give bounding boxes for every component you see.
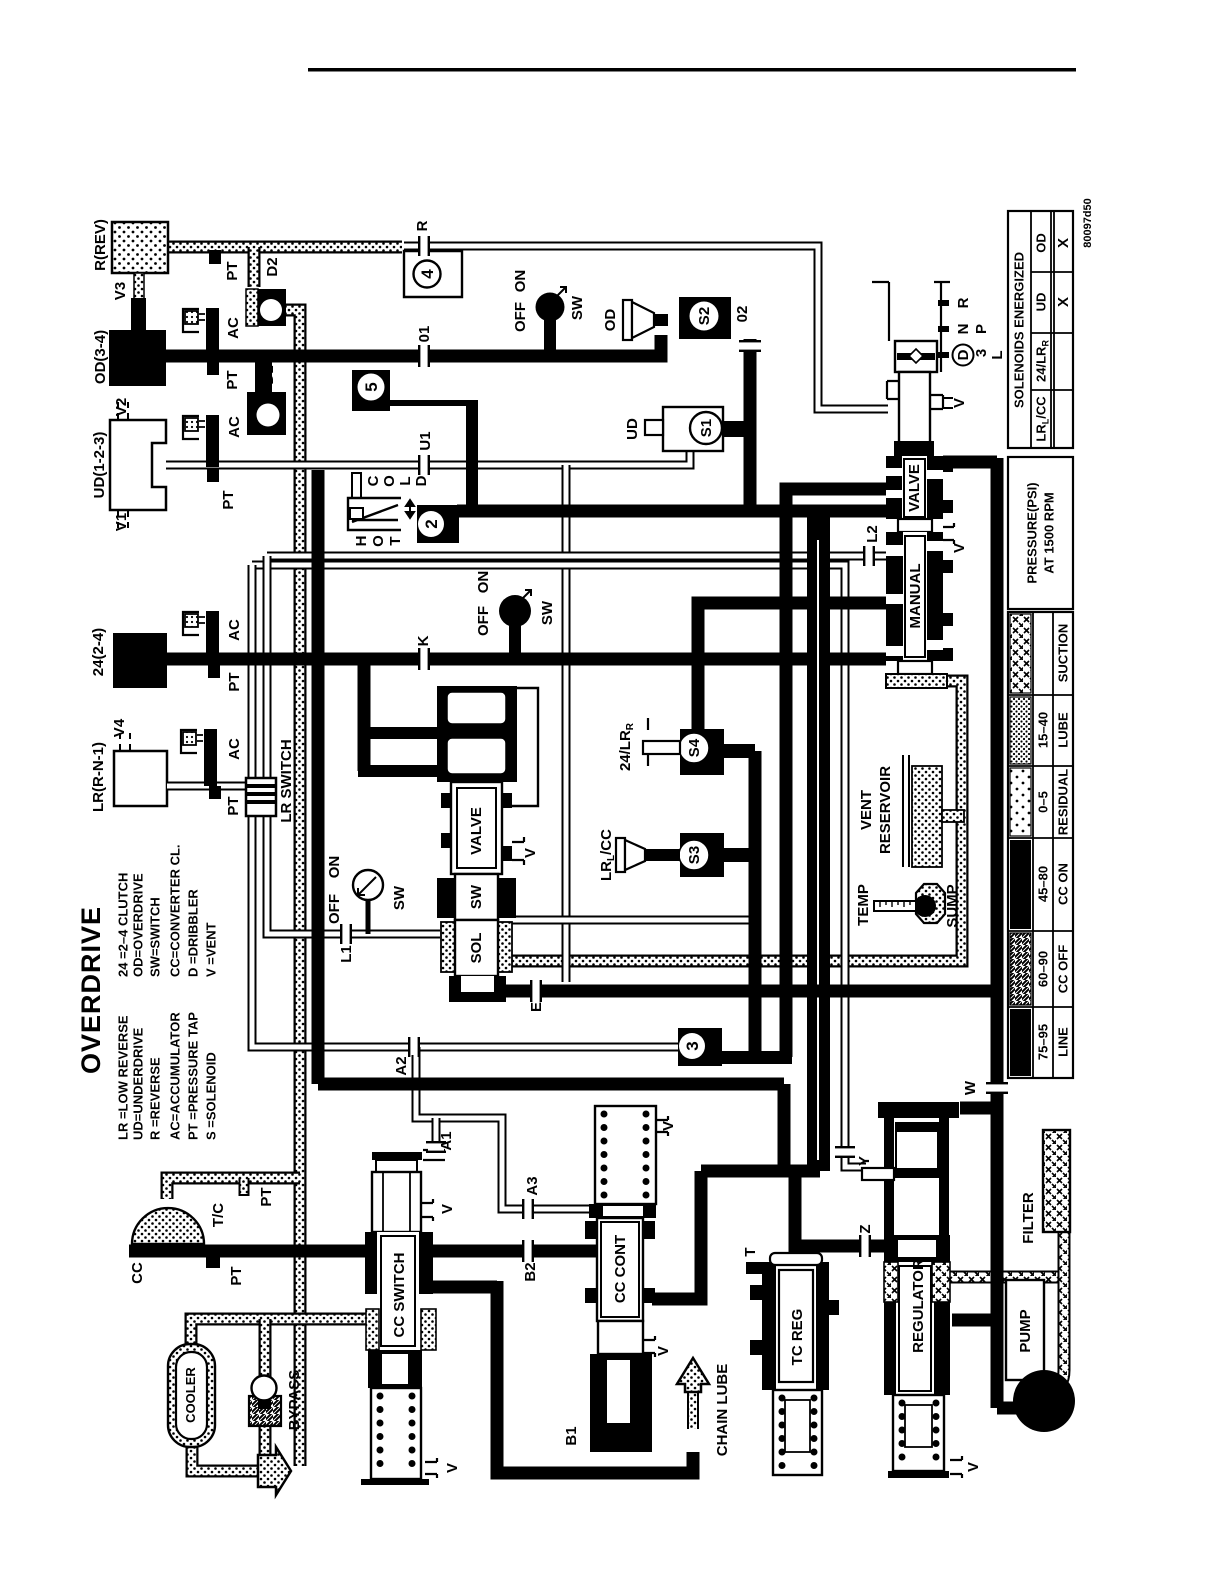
solenoid S3 bbox=[616, 833, 724, 877]
svg-text:D: D bbox=[413, 475, 430, 486]
wire cooler loop stipple bbox=[191, 1319, 372, 1471]
junction circle 3 bbox=[678, 1028, 722, 1066]
svg-text:V: V bbox=[444, 1463, 461, 1473]
wire pump link bbox=[952, 1320, 1017, 1408]
svg-text:VALVE: VALVE bbox=[906, 464, 923, 512]
svg-text:REGULATOR: REGULATOR bbox=[910, 1259, 927, 1353]
wire S3 stub bbox=[722, 848, 755, 862]
wire L2 net bbox=[267, 552, 886, 561]
svg-text:SW: SW bbox=[391, 885, 408, 910]
lube arrow bbox=[258, 1447, 291, 1495]
svg-text:45–80: 45–80 bbox=[1036, 866, 1051, 902]
svg-text:LR(R-N-1): LR(R-N-1) bbox=[90, 742, 107, 812]
svg-text:B1: B1 bbox=[563, 1426, 580, 1445]
junction circle 2 bbox=[417, 505, 459, 543]
svg-text:S3: S3 bbox=[686, 846, 703, 864]
svg-text:24 =2–4 CLUTCH: 24 =2–4 CLUTCH bbox=[116, 873, 131, 977]
svg-text:CC=CONVERTER CL.: CC=CONVERTER CL. bbox=[168, 844, 183, 977]
svg-text:U1: U1 bbox=[417, 431, 434, 450]
svg-text:X: X bbox=[1055, 297, 1072, 307]
clutch UD(1-2-3) bbox=[110, 402, 166, 528]
table pressure header bbox=[1008, 457, 1073, 609]
svg-text:P: P bbox=[973, 324, 990, 334]
svg-text:01: 01 bbox=[416, 326, 433, 343]
wire vent enclosure stipple bbox=[468, 681, 962, 961]
switch SW 24 bbox=[499, 590, 531, 654]
svg-text:CC CONT: CC CONT bbox=[612, 1235, 629, 1303]
accumulator AC 24 bbox=[183, 611, 219, 659]
svg-text:O: O bbox=[381, 475, 398, 487]
svg-text:FILTER: FILTER bbox=[1020, 1192, 1037, 1244]
cooler bbox=[168, 1344, 215, 1447]
svg-text:TC REG: TC REG bbox=[789, 1309, 806, 1366]
svg-text:N: N bbox=[955, 324, 972, 335]
svg-text:SOLENOIDS ENERGIZED: SOLENOIDS ENERGIZED bbox=[1012, 252, 1027, 408]
svg-text:R =REVERSE: R =REVERSE bbox=[148, 1057, 163, 1140]
svg-text:OD: OD bbox=[1034, 233, 1049, 253]
filter bbox=[1043, 1130, 1070, 1232]
wire Z junction bbox=[701, 1171, 884, 1246]
svg-text:SUCTION: SUCTION bbox=[1056, 624, 1071, 683]
wire 5 box link to U1 riser bbox=[389, 400, 478, 406]
svg-text:RESIDUAL: RESIDUAL bbox=[1056, 769, 1071, 836]
svg-text:PT: PT bbox=[225, 796, 242, 815]
svg-text:SW: SW bbox=[539, 600, 556, 625]
manual valve VALVE bore bbox=[886, 456, 943, 519]
svg-text:COOLER: COOLER bbox=[183, 1367, 198, 1423]
svg-text:60–90: 60–90 bbox=[1036, 951, 1051, 987]
wire B1 loop bbox=[432, 1281, 693, 1473]
svg-text:TEMP: TEMP bbox=[855, 884, 872, 926]
wire K bus bbox=[167, 653, 886, 666]
wire 1085 bus bbox=[318, 1084, 784, 1171]
pressure tap PT on LR bbox=[209, 786, 221, 799]
svg-text:PT =PRESSURE TAP: PT =PRESSURE TAP bbox=[186, 1012, 201, 1140]
svg-text:3: 3 bbox=[973, 349, 990, 357]
svg-text:LRL/CC: LRL/CC bbox=[1034, 396, 1051, 442]
manual valve spool bbox=[887, 372, 953, 443]
svg-text:L: L bbox=[989, 350, 1006, 359]
pressure tap PT on U1 bbox=[207, 469, 219, 482]
wire 3 box strip bbox=[716, 1051, 792, 1064]
svg-text:V =VENT: V =VENT bbox=[204, 922, 219, 977]
vent reservoir bbox=[903, 755, 964, 867]
svg-text:LUBE: LUBE bbox=[1056, 712, 1071, 748]
wire K drop to piston block bbox=[358, 659, 371, 771]
svg-text:CC OFF: CC OFF bbox=[1056, 945, 1071, 993]
wire filter suction crosshatch bbox=[950, 1232, 1064, 1390]
svg-text:L: L bbox=[397, 476, 414, 485]
svg-text:0–5: 0–5 bbox=[1036, 791, 1051, 813]
wire CC bus bbox=[129, 1245, 597, 1258]
wire R(REV) stipple feed bbox=[168, 241, 402, 254]
svg-text:E: E bbox=[528, 1002, 545, 1012]
svg-text:V: V bbox=[660, 1121, 677, 1131]
sump thermometer bbox=[874, 884, 945, 923]
junction circle 5 bbox=[352, 370, 390, 411]
wire VALVE right line bbox=[943, 456, 997, 469]
svg-text:R: R bbox=[414, 220, 431, 231]
table solenoids energized bbox=[1008, 211, 1073, 448]
svg-text:C: C bbox=[365, 475, 382, 486]
svg-text:T/C: T/C bbox=[210, 1203, 227, 1227]
svg-text:D =DRIBBLER: D =DRIBBLER bbox=[186, 889, 201, 977]
valve solenoid switch assembly pistons bbox=[437, 686, 538, 806]
svg-text:O: O bbox=[370, 535, 387, 547]
wire bus2 Z-feed bbox=[786, 489, 886, 1057]
manual valve collar bbox=[894, 441, 934, 456]
wire S1 bus bbox=[698, 603, 886, 729]
wire LINE vertical bbox=[991, 458, 1004, 1408]
svg-text:PT: PT bbox=[224, 370, 241, 389]
svg-text:V2: V2 bbox=[113, 398, 130, 416]
svg-text:02: 02 bbox=[734, 306, 751, 323]
svg-text:ON: ON bbox=[512, 270, 529, 293]
wire S1 stub bbox=[722, 421, 744, 437]
svg-text:AC: AC bbox=[225, 317, 242, 339]
wire L1 net bbox=[267, 556, 440, 934]
svg-text:L1: L1 bbox=[338, 945, 355, 963]
clutch LR(R-N-1) bbox=[114, 733, 167, 806]
svg-text:V: V bbox=[439, 1204, 456, 1214]
svg-text:PRESSURE(PSI): PRESSURE(PSI) bbox=[1025, 482, 1040, 583]
legend column 1 bbox=[116, 1012, 219, 1140]
solenoid S1 bbox=[645, 407, 723, 451]
switch SW L1 bbox=[353, 870, 383, 900]
wire A1 stub bbox=[432, 1118, 441, 1152]
svg-text:ON: ON bbox=[326, 856, 343, 879]
manual valve stipple base bbox=[886, 674, 947, 688]
bypass valve bbox=[249, 1376, 281, 1427]
wire U1 net bbox=[166, 452, 690, 465]
svg-text:CHAIN LUBE: CHAIN LUBE bbox=[714, 1364, 731, 1457]
solenoid S2 bbox=[623, 297, 731, 340]
clutch 24(2-4) bbox=[113, 633, 167, 688]
svg-text:Z: Z bbox=[857, 1224, 874, 1233]
svg-text:SW=SWITCH: SW=SWITCH bbox=[148, 897, 163, 977]
pump bbox=[1006, 1280, 1075, 1432]
manual valve bottom collar bbox=[898, 661, 932, 674]
wire L1 switch stem bbox=[366, 900, 371, 934]
manual valve top brackets bbox=[872, 282, 950, 372]
wire bus1b drop bbox=[807, 517, 830, 1171]
svg-text:D2: D2 bbox=[264, 257, 281, 276]
wire CC PT stub bbox=[206, 1251, 220, 1268]
dribbler D1 bbox=[247, 362, 286, 435]
wire A2 net bbox=[252, 565, 680, 1047]
svg-text:CC ON: CC ON bbox=[1056, 863, 1071, 905]
svg-text:D1: D1 bbox=[260, 365, 277, 384]
svg-text:L2: L2 bbox=[864, 525, 881, 543]
svg-text:V: V bbox=[951, 543, 968, 553]
switch LR SWITCH bbox=[246, 778, 276, 816]
pressure tap PT on OD bus bbox=[207, 362, 219, 375]
svg-text:Y: Y bbox=[856, 1156, 873, 1166]
svg-text:OFF: OFF bbox=[326, 894, 343, 924]
wire U1 branch vertical bbox=[562, 465, 571, 982]
solenoid S4 bbox=[643, 718, 724, 775]
svg-text:V3: V3 bbox=[112, 282, 129, 300]
svg-text:V: V bbox=[522, 848, 539, 858]
svg-text:75–95: 75–95 bbox=[1036, 1024, 1051, 1060]
svg-text:AC: AC bbox=[226, 619, 243, 641]
clutch OD(3-4) bbox=[109, 330, 166, 386]
gear selector D circle bbox=[953, 345, 974, 366]
valve CC CONT bbox=[585, 1106, 668, 1452]
svg-text:R: R bbox=[955, 297, 972, 308]
labels hot cold bbox=[353, 475, 430, 547]
svg-text:PUMP: PUMP bbox=[1017, 1309, 1034, 1352]
svg-text:UD=UNDERDRIVE: UD=UNDERDRIVE bbox=[131, 1027, 146, 1140]
accumulator AC LR bbox=[181, 729, 217, 786]
accumulator AC OD bbox=[183, 308, 219, 356]
svg-text:CC: CC bbox=[129, 1262, 146, 1284]
valve CC SWITCH bbox=[361, 1150, 445, 1485]
svg-text:T: T bbox=[742, 1247, 759, 1256]
svg-text:X: X bbox=[1055, 238, 1072, 248]
svg-text:SW: SW bbox=[468, 884, 485, 909]
valve SOL section bbox=[441, 920, 512, 1002]
svg-text:OD: OD bbox=[602, 309, 619, 332]
wire converter lube stipple vertical bbox=[283, 310, 300, 1466]
svg-text:V1: V1 bbox=[113, 513, 130, 531]
svg-text:UD: UD bbox=[624, 418, 641, 440]
wire chain lube stipple arrow bbox=[677, 1358, 709, 1429]
accumulator AC UD bbox=[183, 415, 219, 467]
svg-text:ON: ON bbox=[475, 571, 492, 594]
manual valve mid collar bbox=[898, 519, 932, 532]
svg-text:S2: S2 bbox=[696, 307, 713, 325]
wire W stub bbox=[960, 1102, 997, 1115]
svg-text:AC: AC bbox=[226, 416, 243, 438]
svg-text:OD(3-4): OD(3-4) bbox=[92, 330, 109, 384]
clutch R(REV) bbox=[112, 222, 168, 332]
valve TC REG bbox=[746, 1253, 839, 1475]
valve SW section bbox=[437, 874, 516, 920]
svg-text:5: 5 bbox=[362, 382, 381, 391]
svg-text:3: 3 bbox=[683, 1041, 702, 1050]
pressure tap PT on R line bbox=[209, 250, 221, 264]
svg-text:V: V bbox=[965, 1462, 982, 1472]
torque converter dome bbox=[132, 1208, 204, 1244]
pressure tap PT on K bus bbox=[208, 665, 220, 678]
valve VALVE section bbox=[441, 782, 524, 874]
svg-text:LRL/CC: LRL/CC bbox=[598, 829, 617, 881]
svg-text:AC: AC bbox=[226, 738, 243, 760]
valve HOT COLD thermal bbox=[348, 473, 414, 530]
manual valve detent bbox=[895, 341, 937, 372]
svg-text:D: D bbox=[955, 349, 972, 360]
svg-text:AT 1500 RPM: AT 1500 RPM bbox=[1042, 492, 1057, 573]
wire S4 S3 drop bbox=[749, 751, 762, 1057]
svg-text:RESERVOIR: RESERVOIR bbox=[877, 766, 894, 854]
dribbler D2 bbox=[246, 289, 286, 326]
svg-text:A2: A2 bbox=[393, 1056, 410, 1075]
wire left long drop bbox=[312, 470, 325, 1084]
svg-text:SUMP: SUMP bbox=[944, 884, 961, 927]
svg-text:R(REV): R(REV) bbox=[92, 219, 109, 271]
table pressure rows bbox=[1008, 612, 1073, 1078]
wire OD bus bbox=[166, 335, 661, 356]
wire U1 riser to 2 box bbox=[466, 403, 478, 507]
svg-text:OD=OVERDRIVE: OD=OVERDRIVE bbox=[131, 873, 146, 977]
wire A1 A3 net bbox=[416, 1047, 592, 1209]
wire S3 feed bbox=[512, 880, 755, 920]
wire 2 bus bbox=[457, 505, 886, 518]
svg-text:B2: B2 bbox=[522, 1262, 539, 1281]
svg-text:SOL: SOL bbox=[468, 933, 485, 964]
wire CC CONT right riser bbox=[652, 1171, 701, 1299]
top rule bbox=[308, 68, 1076, 72]
svg-text:S1: S1 bbox=[698, 419, 715, 437]
svg-text:PT: PT bbox=[224, 261, 241, 280]
svg-text:80097d50: 80097d50 bbox=[1082, 198, 1094, 248]
svg-text:S =SOLENOID: S =SOLENOID bbox=[204, 1052, 219, 1140]
svg-text:UD(1-2-3): UD(1-2-3) bbox=[91, 432, 108, 499]
manual valve right wall nubs bbox=[943, 459, 953, 472]
svg-text:A1: A1 bbox=[438, 1131, 455, 1150]
net label break ticks bbox=[420, 238, 428, 254]
junction circle 4 bbox=[404, 251, 462, 297]
svg-text:VENT: VENT bbox=[858, 790, 875, 830]
switch SW OD bbox=[536, 287, 567, 351]
svg-text:PT: PT bbox=[220, 490, 237, 509]
svg-text:4: 4 bbox=[418, 269, 437, 279]
svg-text:LR =LOW REVERSE: LR =LOW REVERSE bbox=[116, 1015, 131, 1140]
wire S2 drop bbox=[744, 339, 757, 511]
svg-text:2: 2 bbox=[422, 519, 441, 528]
svg-text:V: V bbox=[655, 1346, 672, 1356]
svg-text:BYPASS: BYPASS bbox=[286, 1370, 303, 1431]
gear selector ticks bbox=[938, 300, 949, 358]
svg-text:CC SWITCH: CC SWITCH bbox=[391, 1253, 408, 1338]
valve REGULATOR bbox=[862, 1102, 962, 1478]
svg-text:LINE: LINE bbox=[1056, 1027, 1071, 1057]
svg-text:W: W bbox=[962, 1080, 979, 1095]
svg-text:K: K bbox=[415, 635, 432, 646]
svg-text:PT: PT bbox=[228, 1266, 245, 1285]
wire T/C feed stipple bbox=[167, 1178, 300, 1199]
svg-text:OFF: OFF bbox=[475, 606, 492, 636]
svg-text:24(2-4): 24(2-4) bbox=[90, 628, 107, 676]
wire LR thin line bbox=[167, 782, 254, 791]
svg-text:V4: V4 bbox=[111, 718, 128, 737]
svg-text:UD: UD bbox=[1034, 293, 1049, 312]
svg-text:SW: SW bbox=[569, 295, 586, 320]
svg-text:OVERDRIVE: OVERDRIVE bbox=[76, 906, 106, 1074]
wire S4 stub bbox=[722, 744, 755, 758]
svg-text:LR SWITCH: LR SWITCH bbox=[278, 739, 295, 822]
manual valve MANUAL bore bbox=[886, 523, 954, 661]
svg-text:AC=ACCUMULATOR: AC=ACCUMULATOR bbox=[168, 1012, 183, 1140]
svg-text:A3: A3 bbox=[524, 1176, 541, 1195]
svg-text:T: T bbox=[387, 536, 404, 545]
wire R net bbox=[404, 246, 888, 409]
wire Y net bbox=[252, 565, 866, 1167]
svg-text:MANUAL: MANUAL bbox=[907, 564, 924, 629]
svg-text:OFF: OFF bbox=[512, 302, 529, 332]
wire D2 branch stipple bbox=[248, 247, 261, 287]
svg-text:15–40: 15–40 bbox=[1036, 712, 1051, 748]
svg-text:V: V bbox=[951, 398, 968, 408]
svg-text:PT: PT bbox=[258, 1187, 275, 1206]
svg-text:H: H bbox=[353, 536, 370, 547]
svg-text:PT: PT bbox=[226, 672, 243, 691]
legend column 2 bbox=[116, 844, 219, 977]
wire E bus bbox=[451, 985, 997, 998]
svg-text:S4: S4 bbox=[686, 738, 703, 757]
svg-text:VALVE: VALVE bbox=[468, 807, 485, 855]
